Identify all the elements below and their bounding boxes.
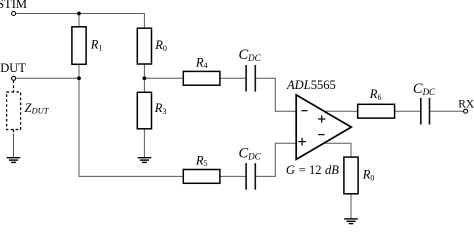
capacitor C3 (CDC output) — [421, 98, 430, 125]
wire DUT horizontal — [16, 77, 79, 79]
junction DUT/R1 — [77, 76, 81, 80]
wire ZDUT bottom lead — [13, 134, 15, 158]
svg-text:CDC: CDC — [239, 47, 262, 63]
wire amp upper output to R6 — [324, 110, 358, 112]
resistor R3 — [137, 92, 151, 129]
svg-text:CDC: CDC — [413, 81, 436, 97]
resistor R4 — [183, 71, 220, 85]
resistor R1 — [72, 27, 86, 65]
op-amp U1 ADL5565 — [296, 95, 351, 159]
pin sign minus upper input — [301, 110, 307, 112]
svg-text:CDC: CDC — [239, 145, 262, 161]
pin sign plus upper output — [318, 115, 325, 122]
pin sign minus lower output — [318, 134, 324, 136]
capacitor C1 (CDC upper) — [246, 65, 255, 92]
ground under R0b — [344, 219, 358, 224]
wire R0a bottom lead — [143, 64, 145, 78]
wire R3 bottom lead — [143, 129, 145, 158]
wire R4 to C1 — [220, 77, 246, 79]
svg-text:R4: R4 — [195, 55, 208, 70]
svg-text:R0: R0 — [362, 168, 375, 183]
svg-text:R6: R6 — [369, 87, 382, 102]
pin sign plus lower input — [298, 138, 306, 146]
terminal RX — [464, 109, 468, 113]
svg-text:R0: R0 — [154, 38, 167, 53]
svg-text:R5: R5 — [195, 153, 208, 168]
wire R1 bottom lead — [78, 64, 80, 78]
wire amp lower output to R0b — [324, 143, 351, 157]
svg-text:RX: RX — [458, 98, 474, 110]
svg-text:dB: dB — [325, 163, 339, 177]
wire R3 top lead — [143, 78, 145, 92]
resistor R6 — [358, 104, 395, 118]
terminal STIM — [12, 12, 16, 16]
wire R5 to C2 — [220, 175, 246, 177]
wire top STIM rail — [16, 14, 145, 29]
resistor R0b — [344, 157, 358, 194]
svg-text:ZDUT: ZDUT — [25, 101, 50, 116]
wire C3 to RX — [430, 110, 464, 112]
svg-text:R3: R3 — [154, 101, 167, 116]
ground under ZDUT — [7, 158, 21, 163]
wire R0b bottom lead — [350, 194, 352, 219]
terminal DUT — [12, 76, 16, 80]
resistor R5 — [183, 170, 220, 184]
wire DUT node down to lower rail — [79, 78, 183, 176]
svg-text:ADL5565: ADL5565 — [286, 78, 336, 92]
resistor R0a — [137, 28, 151, 64]
wire C2 to amp lower input — [256, 143, 297, 176]
wire R6 to C3 — [395, 110, 421, 112]
svg-text:R1: R1 — [90, 38, 103, 53]
junction STIM/R1 — [77, 12, 81, 16]
svg-text:G: G — [286, 163, 295, 177]
capacitor C2 (CDC lower) — [246, 163, 255, 190]
ground under R3 — [138, 158, 152, 163]
wire C1 to amp upper input — [256, 78, 297, 111]
svg-text:= 12: = 12 — [299, 163, 322, 177]
wire R1 top lead — [78, 14, 80, 27]
svg-text:STIM: STIM — [0, 0, 27, 11]
svg-text:DUT: DUT — [0, 61, 26, 75]
junction R0a/R3/R4 — [143, 76, 147, 80]
wire node to R4 — [144, 77, 183, 79]
impedance ZDUT dashed box — [7, 81, 21, 135]
